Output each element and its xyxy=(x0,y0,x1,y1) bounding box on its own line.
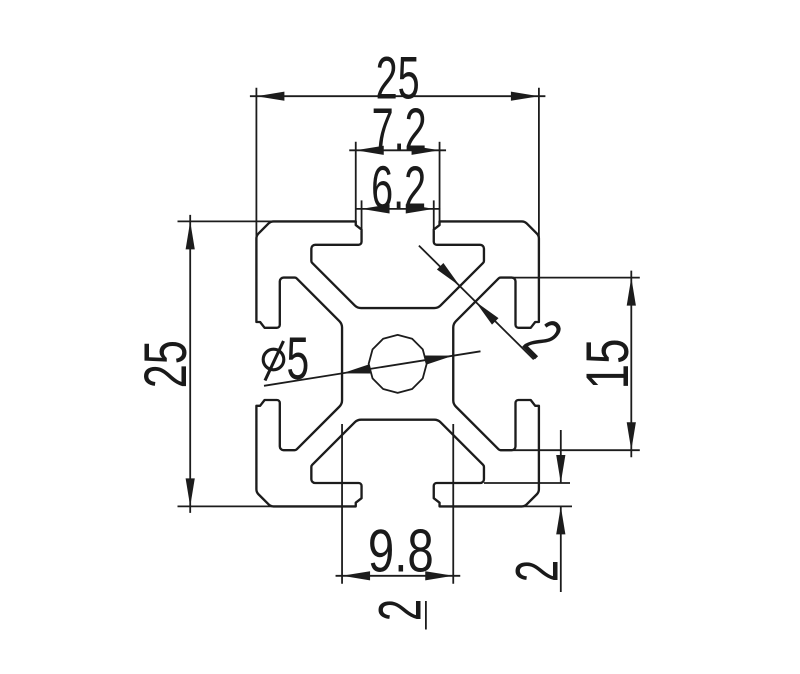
D10 arrowhead lower xyxy=(475,302,498,325)
D5 arrowhead right xyxy=(425,356,453,365)
D2 arrowhead left xyxy=(356,146,384,155)
dimension D6: groove span 15 (right) xyxy=(500,271,642,458)
dimension D8: core width 9.8 (bottom) xyxy=(336,424,461,585)
D4 extension line top xyxy=(178,220,278,222)
D1 dimension line xyxy=(250,95,546,97)
D6 extension line top xyxy=(500,277,640,279)
D2 dimension line xyxy=(349,149,446,151)
D7 extension line top xyxy=(484,482,570,484)
D8 dimension line xyxy=(336,575,461,577)
D3 extension line left xyxy=(361,200,363,229)
D10 arrowhead upper xyxy=(437,263,460,286)
dimension D7: lip wall thickness 2 (bottom right) xyxy=(484,430,572,592)
D4 dimension line xyxy=(189,215,191,513)
D4 arrowhead bottom xyxy=(186,478,195,506)
profile outline: 25x25 aluminium T-slot extrusion cross-section xyxy=(256,221,539,506)
D9 reference stroke xyxy=(425,601,427,630)
D1 arrowhead right xyxy=(511,92,539,101)
D7 dimension line upper part xyxy=(560,430,562,483)
svg-text:5: 5 xyxy=(286,325,309,392)
D6 dimension line xyxy=(630,271,632,458)
D3 extension line right xyxy=(433,200,435,229)
svg-text:6.2: 6.2 xyxy=(371,154,426,221)
dimension D3: slot opening 6.2 (top) xyxy=(355,154,440,230)
D8 arrowhead left xyxy=(342,571,370,580)
D6 arrowhead bottom xyxy=(627,422,636,450)
D8 extension line left xyxy=(341,424,343,584)
D4 extension line bottom xyxy=(178,505,278,507)
D2 arrowhead right xyxy=(412,146,440,155)
D3 dimension line xyxy=(355,208,440,210)
D5 leader line xyxy=(264,351,481,386)
center bore ø5 (drawn as 12-sided polygon) xyxy=(369,335,427,393)
D2 extension line right xyxy=(439,142,441,222)
D8 arrowhead right xyxy=(425,571,453,580)
D3 arrowhead right xyxy=(406,204,434,213)
svg-text:2: 2 xyxy=(503,560,570,582)
D1 arrowhead left xyxy=(256,92,284,101)
D3 arrowhead left xyxy=(362,204,390,213)
D2 extension line left xyxy=(355,142,357,222)
svg-text:2: 2 xyxy=(512,307,575,370)
D10 dimension line (45 deg) xyxy=(419,246,534,360)
dimension D10: diagonal rib thickness 2 (upper right) xyxy=(419,246,575,370)
dimension D2: slot opening incl. chamfers 7.2 (top) xyxy=(349,96,446,222)
dimension D9: wall thickness note 2 (below 9.8) xyxy=(366,599,433,630)
D7 extension line bottom xyxy=(510,505,572,507)
dimension D5: center bore diameter 5 leader xyxy=(263,325,480,392)
dimension D4: overall height 25 (left) xyxy=(133,215,277,513)
D1 extension line left xyxy=(255,88,257,239)
svg-text:9.8: 9.8 xyxy=(368,518,434,585)
D8 extension line right xyxy=(452,424,454,584)
D5 diameter symbol xyxy=(263,341,284,381)
svg-text:2: 2 xyxy=(366,599,433,621)
D7 arrowhead down xyxy=(556,455,565,483)
dimension D1: overall width 25 (top) xyxy=(250,44,546,239)
D4 arrowhead top xyxy=(186,221,195,249)
D7 dimension line lower part xyxy=(560,506,562,592)
D7 arrowhead up xyxy=(556,506,565,534)
D5 arrowhead left xyxy=(342,364,370,373)
D6 arrowhead top xyxy=(627,278,636,306)
D1 extension line right xyxy=(538,88,540,239)
D6 extension line bottom xyxy=(500,449,640,451)
svg-text:25: 25 xyxy=(133,340,200,388)
svg-text:15: 15 xyxy=(575,339,641,390)
